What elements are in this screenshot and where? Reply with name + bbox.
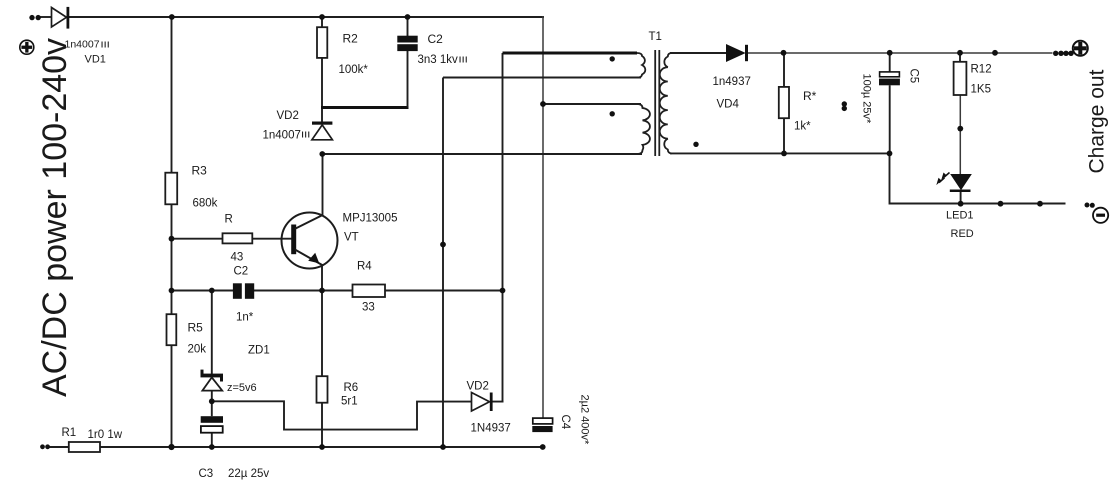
node phase dot primary [610, 111, 615, 116]
svg-text:LED1: LED1 [946, 210, 974, 222]
resistor R12 [954, 62, 967, 95]
transformer T1 core [655, 50, 659, 156]
svg-text:VD1: VD1 [85, 54, 106, 66]
node top rail R2 tap [319, 14, 325, 20]
node rail x443 [440, 444, 446, 450]
node sec bottom R* [781, 151, 787, 157]
svg-text:VD2: VD2 [467, 381, 489, 393]
diode VD1 [52, 7, 70, 29]
node sec top extra [992, 50, 998, 56]
svg-text:1K5: 1K5 [971, 84, 991, 96]
svg-text:2µ2 400v*: 2µ2 400v* [579, 395, 591, 445]
node led rail b [1037, 201, 1043, 207]
node rail R6 [319, 444, 325, 450]
svg-text:43: 43 [231, 252, 244, 264]
node rail C4 [540, 444, 546, 450]
node sec top R12 [957, 50, 963, 56]
node y290 feedback [500, 288, 506, 294]
wire collector to primary bottom y=154 [322, 153, 642, 155]
wire top rail [40, 16, 52, 18]
wire R2 top lead [321, 17, 323, 28]
resistor R3 [165, 173, 177, 205]
svg-text:R1: R1 [62, 427, 77, 439]
resistor R* [779, 87, 789, 118]
node rail C3 [209, 444, 215, 450]
wire C5 branch x=889.7 [889, 53, 891, 72]
node ZD1 anode [209, 398, 215, 404]
svg-text:R4: R4 [357, 261, 372, 273]
wire feedback winding bottom x=443 [442, 78, 444, 448]
resistor R6 [317, 376, 328, 403]
label C2 snubber value [418, 54, 467, 66]
resistor R2 [317, 27, 327, 58]
svg-text:1k*: 1k* [794, 121, 811, 133]
wire zener feedback path [212, 401, 504, 429]
label VD2 snubber value [263, 130, 310, 142]
wire secondary bottom y=153.4 [670, 152, 890, 154]
capacitor C5 [879, 72, 900, 85]
svg-text:5r1: 5r1 [341, 396, 358, 408]
node sec bottom C5 [887, 151, 893, 157]
svg-text:C5: C5 [908, 69, 920, 84]
svg-text:R: R [225, 214, 233, 226]
node rail R5 [168, 444, 174, 450]
svg-text:100µ 25v*: 100µ 25v* [861, 74, 873, 124]
svg-text:1n4007: 1n4007 [263, 130, 301, 142]
capacitor C2 3n3 [397, 36, 417, 51]
wire snubber verticals at x=322 [321, 58, 323, 122]
wire R12/LED branch x=960 [959, 53, 961, 62]
node top rail C2 tap [405, 14, 411, 20]
svg-text:C2: C2 [234, 266, 249, 278]
svg-text:ZD1: ZD1 [248, 345, 270, 357]
wire snubber bottom thick y=107.5 [321, 106, 409, 109]
resistor R 43 [223, 233, 253, 243]
svg-text:R5: R5 [188, 321, 204, 335]
LED LED1 [936, 173, 971, 193]
svg-text:T1: T1 [649, 31, 662, 43]
node phase dot feedback [610, 56, 615, 61]
svg-text:R6: R6 [344, 382, 359, 394]
terminal dots input bottom [40, 444, 50, 449]
wire R* branch x=784 [783, 53, 785, 87]
wire base y=238.7 [172, 238, 292, 240]
svg-text:RED: RED [951, 228, 974, 240]
node R12 LED mid [957, 126, 963, 132]
transformer T1 secondary winding [660, 53, 672, 153]
svg-text:VD4: VD4 [717, 99, 740, 111]
svg-text:C3: C3 [199, 468, 214, 480]
capacitor C4 [532, 418, 552, 432]
svg-text:C2: C2 [428, 32, 444, 46]
transformer T1 primary winding [637, 104, 650, 154]
resistor R5 [167, 314, 177, 345]
node y290 ZD1 tap [209, 288, 215, 294]
svg-text:VD2: VD2 [277, 110, 299, 122]
svg-text:3n3 1kv: 3n3 1kv [418, 54, 459, 66]
capacitor C3 [201, 416, 223, 433]
diode VD4 [727, 45, 749, 61]
terminal plus input [20, 40, 34, 54]
svg-text:Charge out: Charge out [1086, 69, 1109, 173]
svg-text:VT: VT [344, 232, 359, 244]
svg-text:22µ 25v: 22µ 25v [228, 468, 269, 480]
transformer T1 feedback winding [637, 53, 645, 78]
svg-text:1n4937: 1n4937 [713, 76, 751, 88]
svg-text:R*: R* [803, 89, 817, 103]
node phase dot secondary [693, 142, 698, 147]
svg-text:33: 33 [362, 302, 375, 314]
resistor R1 [69, 442, 100, 452]
terminal plus charge out [1053, 41, 1088, 56]
svg-text:1n*: 1n* [236, 312, 254, 324]
wire C2 3n3 leads [407, 17, 409, 36]
terminal minus charge out [1085, 203, 1109, 223]
wire R3/R5 vertical x=171.5 [171, 17, 173, 447]
svg-text:680k: 680k [193, 198, 218, 210]
node y290 R5 tap [169, 288, 175, 294]
svg-text:C4: C4 [559, 415, 571, 430]
node base tap [169, 236, 175, 242]
wire negative output rail [890, 153, 1066, 203]
svg-text:1N4937: 1N4937 [471, 423, 511, 435]
svg-text:20k: 20k [188, 344, 207, 356]
resistor R4 [353, 285, 386, 298]
transistor VT MPJ13005 [282, 213, 338, 269]
svg-text:R2: R2 [343, 32, 359, 46]
capacitor C2 1n series [233, 283, 254, 299]
svg-text:R12: R12 [971, 64, 992, 76]
svg-text:100k*: 100k* [339, 64, 369, 76]
wire feedback lower y=290.5 [172, 290, 235, 292]
wire primary top y=104 [543, 103, 641, 105]
diode VD2 snubber [312, 122, 333, 140]
svg-text:R3: R3 [192, 164, 208, 178]
node led rail LED [958, 201, 964, 207]
diode VD2 1N4937 feedback [472, 393, 493, 412]
node primary top [540, 101, 546, 107]
svg-text:1r0 1w: 1r0 1w [88, 429, 123, 441]
node led rail a [998, 201, 1004, 207]
wire emitter/R6 vertical x=322 [321, 265, 323, 447]
zener ZD1 [201, 370, 224, 391]
svg-text:AC/DC power 100-240v: AC/DC power 100-240v [36, 38, 74, 397]
svg-text:MPJ13005: MPJ13005 [343, 213, 398, 225]
node top rail R3 tap [169, 14, 175, 20]
wire bottom rail y=447 [48, 446, 544, 448]
node sec top VD4 [781, 50, 787, 56]
wire feedback winding top x=502.5 thick [502, 53, 504, 402]
wire ZD1/C3 branch x=211.8 [211, 291, 213, 375]
node collector [319, 151, 325, 157]
wire collector vertical x=322.5 [322, 155, 324, 216]
label VD1 value [65, 39, 109, 51]
wire secondary top y=53 [670, 52, 727, 54]
node y290 emitter [319, 288, 325, 294]
artifact blob [842, 101, 847, 111]
svg-text:z=5v6: z=5v6 [227, 382, 257, 394]
node x443 mid [440, 242, 446, 248]
wire bulk-cap vertical x=543 [542, 16, 544, 418]
node sec top C5 [887, 50, 893, 56]
terminal dots input top [29, 15, 41, 20]
